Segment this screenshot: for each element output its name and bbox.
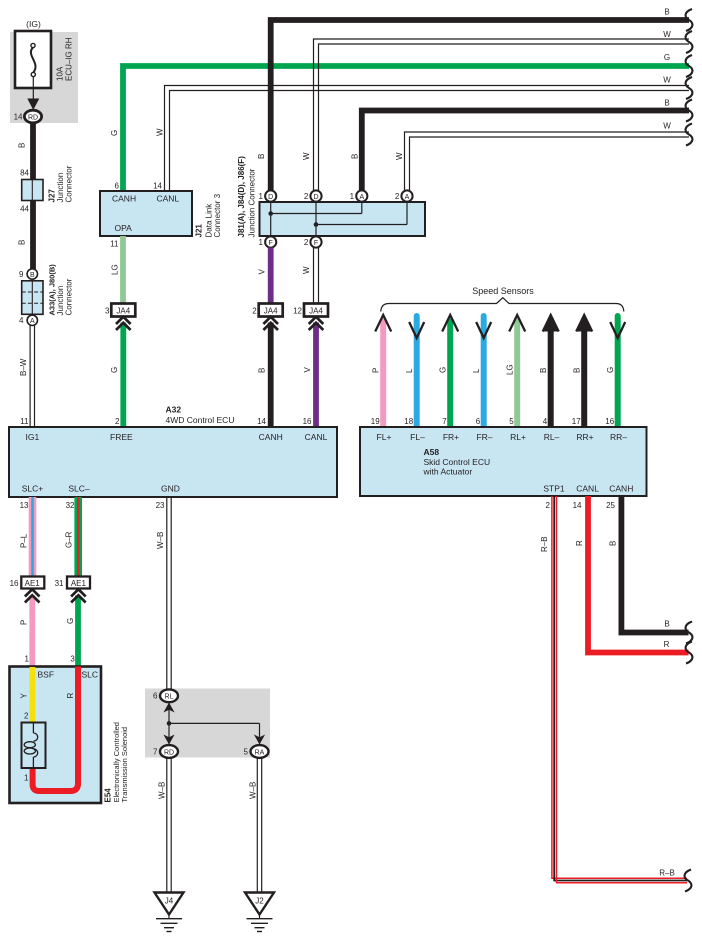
svg-text:L: L [405, 368, 414, 373]
svg-text:V: V [303, 367, 312, 373]
svg-text:W: W [395, 152, 404, 160]
svg-text:6: 6 [476, 417, 481, 426]
svg-text:P: P [20, 620, 29, 625]
svg-text:B: B [573, 368, 582, 373]
svg-text:A58: A58 [424, 447, 440, 457]
svg-text:Transmission Solenoid: Transmission Solenoid [120, 727, 129, 803]
svg-text:Y: Y [20, 693, 29, 699]
svg-text:R: R [664, 640, 670, 649]
svg-text:RL: RL [165, 694, 174, 701]
svg-text:LG: LG [111, 264, 120, 275]
svg-text:D: D [268, 194, 273, 201]
svg-text:FR+: FR+ [443, 432, 459, 442]
svg-text:R–B: R–B [659, 869, 675, 878]
svg-text:F: F [269, 240, 273, 247]
svg-text:2: 2 [115, 417, 120, 426]
svg-text:14: 14 [153, 182, 162, 191]
svg-text:14: 14 [573, 501, 582, 510]
svg-text:CANH: CANH [259, 432, 283, 442]
svg-text:6: 6 [115, 182, 120, 191]
svg-text:J81(A), J84(D), J86(F): J81(A), J84(D), J86(F) [237, 156, 246, 238]
svg-text:SLC: SLC [82, 670, 99, 680]
svg-text:ECU–IG RH: ECU–IG RH [65, 37, 74, 81]
svg-text:G: G [66, 618, 75, 624]
svg-text:R: R [575, 540, 584, 546]
svg-text:B: B [609, 541, 618, 546]
svg-text:RR+: RR+ [576, 432, 593, 442]
svg-text:B: B [18, 240, 27, 245]
svg-text:Connector 3: Connector 3 [213, 193, 222, 237]
svg-text:SLC–: SLC– [68, 484, 90, 494]
svg-text:7: 7 [442, 417, 447, 426]
svg-text:CANL: CANL [305, 432, 328, 442]
svg-text:4: 4 [543, 417, 548, 426]
svg-text:W: W [663, 30, 671, 39]
svg-text:J2: J2 [255, 897, 264, 906]
svg-text:B: B [18, 143, 27, 148]
svg-text:B: B [351, 154, 360, 159]
svg-text:JA4: JA4 [116, 306, 130, 315]
svg-text:Junction Connector: Junction Connector [248, 168, 257, 237]
svg-text:5: 5 [244, 747, 249, 756]
svg-text:17: 17 [572, 417, 581, 426]
svg-text:B: B [258, 368, 267, 373]
svg-text:FL+: FL+ [377, 432, 392, 442]
svg-text:B–W: B–W [19, 358, 28, 376]
svg-text:1: 1 [24, 774, 29, 783]
svg-text:Connector: Connector [65, 278, 74, 315]
svg-text:A32: A32 [166, 405, 182, 415]
svg-text:JA4: JA4 [264, 306, 278, 315]
svg-text:CANH: CANH [609, 484, 633, 494]
svg-text:OPA: OPA [115, 223, 133, 233]
svg-text:31: 31 [55, 579, 64, 588]
svg-text:P–L: P–L [20, 533, 29, 548]
svg-text:14: 14 [257, 417, 266, 426]
svg-text:with Actuator: with Actuator [423, 467, 473, 477]
svg-text:GND: GND [161, 484, 180, 494]
svg-text:G–R: G–R [65, 531, 74, 548]
svg-text:A: A [359, 194, 364, 201]
svg-text:19: 19 [371, 417, 380, 426]
svg-text:W–B: W–B [249, 782, 258, 799]
svg-text:W: W [302, 152, 311, 160]
svg-text:R: R [66, 693, 75, 699]
svg-text:B: B [664, 8, 669, 17]
svg-text:V: V [258, 269, 267, 275]
svg-text:2: 2 [24, 712, 29, 721]
svg-text:B: B [257, 154, 266, 159]
svg-text:W: W [663, 76, 671, 85]
svg-text:B: B [664, 620, 669, 629]
svg-text:FR–: FR– [476, 432, 492, 442]
svg-text:2: 2 [304, 192, 309, 201]
svg-text:G: G [606, 367, 615, 373]
svg-text:7: 7 [153, 747, 158, 756]
svg-text:G: G [439, 367, 448, 373]
svg-text:RD: RD [28, 114, 38, 121]
svg-text:23: 23 [156, 501, 165, 510]
svg-text:W–B: W–B [158, 782, 167, 799]
svg-text:D: D [313, 194, 318, 201]
svg-text:SLC+: SLC+ [22, 484, 44, 494]
svg-text:(IG): (IG) [26, 19, 41, 29]
svg-text:1: 1 [259, 192, 264, 201]
svg-text:25: 25 [606, 501, 615, 510]
svg-text:13: 13 [20, 501, 29, 510]
svg-text:CANL: CANL [576, 484, 599, 494]
svg-text:18: 18 [404, 417, 413, 426]
svg-text:1: 1 [350, 192, 355, 201]
svg-text:FREE: FREE [110, 432, 133, 442]
svg-text:AE1: AE1 [25, 579, 41, 588]
svg-text:W: W [663, 122, 671, 131]
svg-text:16: 16 [605, 417, 614, 426]
svg-text:P: P [372, 368, 381, 373]
svg-text:2: 2 [304, 238, 309, 247]
svg-text:11: 11 [20, 417, 29, 426]
svg-text:14: 14 [14, 113, 23, 122]
svg-text:84: 84 [20, 169, 29, 178]
svg-text:Speed Sensors: Speed Sensors [472, 286, 534, 296]
svg-text:L: L [472, 368, 481, 373]
svg-text:1: 1 [259, 238, 264, 247]
svg-text:A: A [30, 318, 35, 325]
svg-text:IG1: IG1 [26, 432, 40, 442]
svg-text:RD: RD [164, 749, 174, 756]
svg-text:Connector: Connector [65, 165, 74, 202]
svg-text:B: B [30, 272, 35, 279]
svg-text:3: 3 [70, 655, 75, 664]
svg-text:5: 5 [509, 417, 514, 426]
svg-text:JA4: JA4 [309, 306, 323, 315]
svg-text:G: G [110, 130, 119, 136]
svg-text:2: 2 [546, 501, 551, 510]
svg-text:AE1: AE1 [71, 579, 87, 588]
svg-text:W: W [302, 266, 311, 274]
svg-text:16: 16 [10, 579, 19, 588]
svg-text:A: A [405, 194, 410, 201]
svg-text:FL–: FL– [410, 432, 425, 442]
svg-text:12: 12 [293, 306, 302, 315]
svg-text:10A: 10A [56, 66, 65, 81]
svg-text:3: 3 [105, 306, 110, 315]
svg-text:32: 32 [66, 501, 75, 510]
svg-text:G: G [664, 53, 670, 62]
svg-text:2: 2 [252, 306, 257, 315]
svg-text:RL+: RL+ [510, 432, 526, 442]
svg-text:B: B [664, 99, 669, 108]
svg-text:J4: J4 [165, 897, 174, 906]
svg-text:11: 11 [110, 240, 119, 249]
svg-text:44: 44 [20, 205, 29, 214]
svg-text:RL–: RL– [544, 432, 560, 442]
svg-text:1: 1 [25, 655, 30, 664]
svg-text:Skid Control ECU: Skid Control ECU [424, 457, 491, 467]
svg-text:16: 16 [303, 417, 312, 426]
svg-text:W–B: W–B [156, 532, 165, 549]
svg-text:J21: J21 [195, 224, 204, 238]
svg-text:CANL: CANL [157, 194, 180, 204]
svg-text:STP1: STP1 [543, 484, 565, 494]
svg-text:R–B: R–B [540, 536, 549, 552]
svg-text:6: 6 [153, 692, 158, 701]
svg-text:BSF: BSF [38, 670, 55, 680]
svg-text:B: B [539, 368, 548, 373]
svg-text:W: W [156, 128, 165, 136]
svg-text:9: 9 [19, 270, 24, 279]
svg-text:2: 2 [395, 192, 400, 201]
svg-text:RR–: RR– [610, 432, 627, 442]
svg-text:G: G [110, 367, 119, 373]
svg-text:LG: LG [506, 364, 515, 375]
svg-text:RA: RA [255, 749, 265, 756]
svg-text:CANH: CANH [112, 194, 136, 204]
svg-text:4: 4 [19, 316, 24, 325]
svg-text:4WD Control ECU: 4WD Control ECU [166, 415, 235, 425]
svg-text:F: F [314, 240, 318, 247]
